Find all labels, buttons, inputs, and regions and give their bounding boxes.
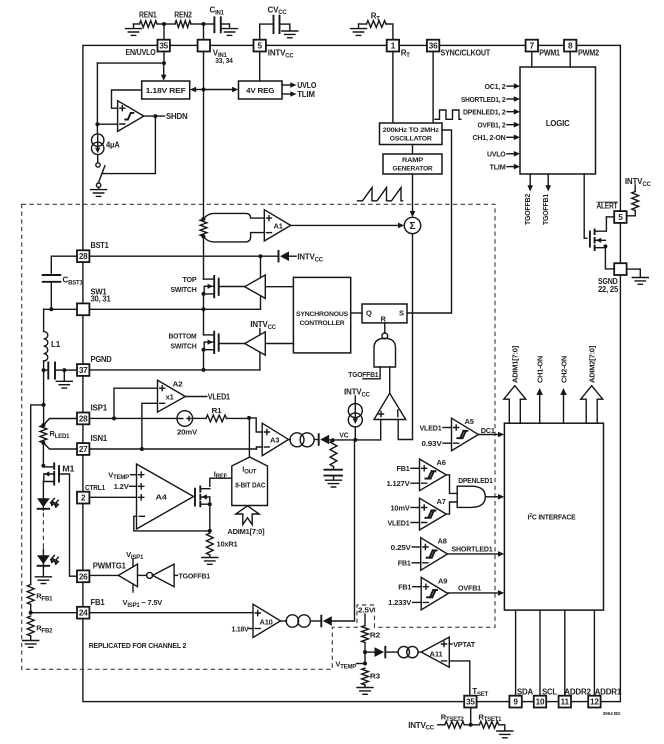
arrow CH2-ON output <box>563 394 565 423</box>
current mirror at A10 output <box>281 620 287 622</box>
svg-text:12: 12 <box>590 698 599 707</box>
compensation network on VC <box>330 440 337 466</box>
wire oscillator to flip-flop S input <box>407 130 452 313</box>
pin 12 ADDR1 <box>588 696 600 708</box>
wire AND output to I2C <box>485 496 498 498</box>
svg-text:x1: x1 <box>166 393 174 402</box>
svg-text:CH1-ON: CH1-ON <box>536 356 545 383</box>
wire ramp generator to summer (arrow down) <box>412 174 414 211</box>
svg-text:1.127V: 1.127V <box>387 479 410 488</box>
pin 26 PWMTG1 <box>77 570 89 582</box>
arrow output TLIM <box>282 93 291 95</box>
op-amp A11 (VPTAT) <box>421 637 449 667</box>
svg-text:SWITCH: SWITCH <box>171 342 197 351</box>
svg-text:24: 24 <box>79 609 88 618</box>
transistor M1 (PWM dimming FET) <box>42 443 44 466</box>
svg-text:VC: VC <box>339 430 349 439</box>
wire bottom driver to PGND net <box>259 352 261 370</box>
ground below LED2 <box>42 568 44 576</box>
resistor RFB2 <box>27 616 34 636</box>
svg-text:1.18V REF: 1.18V REF <box>146 86 187 95</box>
ground for REN1 <box>133 24 135 28</box>
svg-text:20mV: 20mV <box>177 427 197 436</box>
svg-text:4V REG: 4V REG <box>246 86 274 95</box>
label VPTAT <box>449 643 452 645</box>
svg-text:DPENLED1: DPENLED1 <box>458 476 493 485</box>
wire comparator + leg to VC <box>380 420 382 440</box>
svg-text:5: 5 <box>258 42 263 51</box>
comparator A6 <box>420 459 447 491</box>
arrow TGOFFB2 from logic <box>529 174 531 186</box>
wire A6 to AND gate <box>446 475 457 494</box>
wire 2.5V to R2 <box>364 614 366 626</box>
wire 1.18V REF feedback to comparator + <box>112 90 142 108</box>
arrow output UVLO <box>282 84 291 86</box>
svg-text:26: 26 <box>79 572 88 581</box>
wire FB1 to divider <box>31 612 77 614</box>
pin 7 PWM1 <box>526 40 538 52</box>
svg-text:OVFB1: OVFB1 <box>458 583 481 592</box>
dashed wire LED string <box>42 513 44 550</box>
sawtooth waveform symbol <box>358 188 403 201</box>
current mirror at A3 output <box>289 439 291 441</box>
ground at SGND <box>627 269 641 276</box>
wire REN1 junction to EN/UVLO pin <box>163 24 165 40</box>
svg-text:33, 34: 33, 34 <box>215 56 233 65</box>
wire A7 to AND gate <box>446 502 457 514</box>
wire VIN down to top switch drain <box>203 237 205 280</box>
ground below switch <box>98 187 100 189</box>
svg-text:28: 28 <box>79 414 88 423</box>
wire A5 output DC1 <box>478 434 498 436</box>
svg-text:0.25V: 0.25V <box>391 543 411 552</box>
wire VIN to REF and REG with arrows <box>196 89 204 91</box>
svg-text:3964 BD: 3964 BD <box>603 711 622 716</box>
svg-text:Σ: Σ <box>409 220 415 232</box>
pin 10 SCL <box>534 696 546 708</box>
wire CTRL1 to A4 <box>89 496 136 498</box>
svg-text:A4: A4 <box>156 493 168 502</box>
svg-text:VLED1: VLED1 <box>420 423 442 432</box>
svg-text:7: 7 <box>530 42 535 51</box>
svg-text:R3: R3 <box>370 672 380 681</box>
svg-text:A1: A1 <box>274 222 283 231</box>
pin 36 SYNC/CLKOUT <box>427 40 439 52</box>
svg-text:PWM1: PWM1 <box>539 48 560 57</box>
svg-text:A5: A5 <box>465 417 474 426</box>
svg-text:RAMP: RAMP <box>402 157 424 164</box>
wire A10 diode to VC vertical <box>332 440 355 621</box>
ground at output cap <box>63 370 65 380</box>
diode at A3 mirror output to VC <box>314 439 317 441</box>
svg-text:L1: L1 <box>51 340 61 349</box>
svg-text:36: 36 <box>429 42 438 51</box>
wire ISP1 right to 20mV source <box>89 417 177 419</box>
wire SHDN output <box>144 115 165 117</box>
svg-text:OSCILLATOR: OSCILLATOR <box>390 136 432 143</box>
svg-text:35: 35 <box>159 42 168 51</box>
summer sigma <box>404 217 420 233</box>
wire I2C to ADDR2 pin <box>564 610 566 696</box>
svg-text:BST1: BST1 <box>91 241 110 250</box>
svg-text:A9: A9 <box>438 576 447 585</box>
sync square wave symbol <box>435 110 461 119</box>
PWM comparator (current comparator) <box>374 393 406 419</box>
arrow ADIM1 into DAC <box>236 506 259 525</box>
svg-text:10mV: 10mV <box>391 503 410 512</box>
wire A4 output to gate <box>194 496 196 498</box>
svg-text:FB1: FB1 <box>398 583 411 592</box>
pin SGND (22,25) <box>614 263 626 275</box>
svg-text:DPENLED1, 2: DPENLED1, 2 <box>463 108 506 117</box>
led LED1 <box>42 482 44 499</box>
bottom gate driver <box>245 332 266 355</box>
svg-text:SDA: SDA <box>517 687 533 696</box>
wire ISP1 to RLED1 top <box>43 419 77 426</box>
svg-text:2.5V: 2.5V <box>358 606 374 615</box>
comparator A9 <box>421 577 448 610</box>
svg-text:1.18V: 1.18V <box>232 625 249 634</box>
svg-text:27: 27 <box>79 445 88 454</box>
svg-text:ADDR1: ADDR1 <box>595 687 622 696</box>
svg-text:ADIM2[7:0]: ADIM2[7:0] <box>588 345 597 383</box>
svg-text:R: R <box>381 314 387 323</box>
svg-text:SYNCHRONOUS: SYNCHRONOUS <box>296 311 349 318</box>
svg-text:TGOFFB1: TGOFFB1 <box>541 194 550 225</box>
wire VIN1 pin down to sense resistor <box>203 51 205 219</box>
block 8-BIT DAC <box>232 457 268 506</box>
svg-text:UVLO: UVLO <box>297 81 316 90</box>
pin 35 TSET <box>464 696 476 708</box>
wire ISN1 up to A2 - <box>142 403 158 449</box>
op-amp A2 (x1 buffer) <box>158 380 186 412</box>
block 4V REG <box>239 81 283 99</box>
wire flip-flop Q to controller <box>351 312 362 314</box>
wire M1 gate to PWMTG1 <box>59 474 77 576</box>
svg-text:A3: A3 <box>270 436 279 445</box>
block 1.18V REF <box>142 81 190 99</box>
pin 5 ALERT <box>614 211 626 223</box>
arrow TGOFFB1 from logic <box>547 174 549 186</box>
op-amp A10 <box>253 604 281 637</box>
ground below RFB2 <box>30 636 32 640</box>
wire summer down to PWM comparator <box>412 234 414 440</box>
wire DAC IREF to mosfet drain <box>210 478 232 486</box>
wire A8 output SHORTLED1 <box>448 553 498 555</box>
resistor R3 <box>362 668 369 685</box>
svg-text:ADIM1[7:0]: ADIM1[7:0] <box>227 527 265 536</box>
pin 27 ISN1 <box>77 443 89 455</box>
pin SW1 (30,31) <box>77 303 89 315</box>
wire INTVCC pin to 4V REG <box>259 51 261 81</box>
svg-text:ISP1: ISP1 <box>91 403 108 412</box>
svg-text:30, 31: 30, 31 <box>91 295 112 304</box>
svg-text:8-BIT DAC: 8-BIT DAC <box>235 480 266 489</box>
pin 28 ISP1 <box>77 413 89 425</box>
wire PGND net <box>203 350 205 370</box>
resistor RLED1 <box>43 405 45 425</box>
svg-text:SWITCH: SWITCH <box>171 285 197 294</box>
wire I2C to SCL pin <box>539 610 541 696</box>
wire SW1 net <box>203 294 205 309</box>
ground below 10xR1 <box>209 555 211 557</box>
wire racetrack to A1 + input <box>204 213 265 219</box>
svg-text:9: 9 <box>513 698 518 707</box>
wire BST1 net to INTVCC diode <box>89 255 278 257</box>
node EN/UVLO top junction <box>162 22 166 26</box>
diode to A11 mirror <box>365 651 374 653</box>
wire A1 output to summer <box>291 224 399 226</box>
pin 1 RT <box>387 40 399 52</box>
svg-text:TGOFFB1: TGOFFB1 <box>179 572 211 581</box>
resistor R2 <box>362 626 369 643</box>
wire ISN1 to RLED1 bottom <box>43 443 77 449</box>
svg-text:2: 2 <box>81 494 86 503</box>
wire ISP1 up to A2 + <box>114 388 158 418</box>
comparator A8 <box>421 538 448 571</box>
diode to INTVCC (bootstrap) <box>278 251 280 262</box>
svg-text:A7: A7 <box>437 497 446 506</box>
svg-text:PGND: PGND <box>91 355 112 364</box>
svg-text:1.233V: 1.233V <box>388 598 411 607</box>
AND gate DPENLED1 <box>457 486 485 507</box>
dashed box REPLICATED FOR CHANNEL 2 <box>22 204 495 669</box>
ground at RTSET1 <box>497 731 513 738</box>
svg-text:ISN1: ISN1 <box>91 434 108 443</box>
svg-text:22, 25: 22, 25 <box>598 285 619 294</box>
svg-text:OVFB1, 2: OVFB1, 2 <box>478 121 506 130</box>
svg-text:0.93V: 0.93V <box>422 439 442 448</box>
ground for CVCC <box>289 24 291 30</box>
resistor R1 <box>193 417 206 419</box>
svg-text:10xR1: 10xR1 <box>217 540 238 549</box>
wire controller to bottom driver <box>265 343 293 345</box>
svg-text:S: S <box>399 308 404 317</box>
svg-text:SYNC/CLKOUT: SYNC/CLKOUT <box>441 48 491 57</box>
svg-text:8: 8 <box>568 42 573 51</box>
svg-text:200kHz TO 2MHz: 200kHz TO 2MHz <box>383 127 440 134</box>
svg-text:28: 28 <box>79 252 88 261</box>
wire oscillator to ramp generator <box>412 145 414 155</box>
svg-text:A10: A10 <box>260 618 273 627</box>
svg-text:DC1: DC1 <box>481 426 495 435</box>
svg-text:R1: R1 <box>212 406 222 415</box>
wire logic to alert transistor gate <box>584 174 587 238</box>
current mirror at A11 <box>398 646 409 657</box>
svg-text:A11: A11 <box>430 650 443 659</box>
comparator A5 <box>452 418 479 451</box>
current source 4uA <box>96 124 98 134</box>
pin 35 EN/UVLO <box>158 40 170 52</box>
svg-text:M1: M1 <box>62 465 75 474</box>
voltage source 20mV <box>177 411 193 427</box>
svg-text:A6: A6 <box>437 458 446 467</box>
led LED2 <box>42 549 44 555</box>
wire I2C to SDA pin <box>515 610 517 696</box>
inverter bubble <box>147 572 153 578</box>
diode at A10 mirror output <box>310 620 320 622</box>
svg-text:VLED1: VLED1 <box>388 518 410 527</box>
svg-text:REPLICATED FOR CHANNEL 2: REPLICATED FOR CHANNEL 2 <box>89 641 187 650</box>
block LOGIC <box>520 67 596 174</box>
wire RT pin to oscillator <box>392 51 394 123</box>
wire buffer to inverter bubble <box>138 574 147 576</box>
wire A9 output OVFB1 <box>448 592 498 594</box>
svg-text:REN1: REN1 <box>139 11 157 20</box>
svg-text:SHORTLED1: SHORTLED1 <box>452 544 493 553</box>
svg-text:A2: A2 <box>173 379 183 388</box>
comparator A7 <box>420 498 447 530</box>
svg-text:BOTTOM: BOTTOM <box>169 332 197 341</box>
comparator U1 (shutdown) <box>118 101 144 132</box>
driver buffer to PWMTG1 <box>89 574 118 576</box>
svg-text:GENERATOR: GENERATOR <box>393 166 433 173</box>
wire ISN1 right to A3 minus <box>89 448 256 450</box>
svg-text:ALERT: ALERT <box>597 202 618 211</box>
pin 37 PGND <box>77 364 89 376</box>
svg-text:10: 10 <box>536 698 545 707</box>
op-amp A1 <box>264 210 290 241</box>
pin 2 CTRL1 <box>77 492 89 504</box>
pin 11 ADDR2 <box>559 696 571 708</box>
arrow ADIM1[7:0] output <box>504 386 526 424</box>
resistor RFB1 <box>27 585 34 605</box>
svg-text:5: 5 <box>618 213 623 222</box>
wire comparator - leg to summer line <box>398 420 412 440</box>
block RAMP GENERATOR <box>383 154 442 174</box>
resistor 10xR1 <box>206 533 213 555</box>
svg-text:PWMTG1: PWMTG1 <box>93 562 127 571</box>
wire diode junction down to top driver <box>260 256 262 277</box>
pin 9 SDA <box>509 696 521 708</box>
output capacitor at PGND <box>42 368 46 372</box>
svg-text:TLIM: TLIM <box>297 90 315 99</box>
pin VIN1 (33,34) <box>198 40 210 52</box>
svg-text:CH1, 2-ON: CH1, 2-ON <box>473 133 506 142</box>
svg-text:SCL: SCL <box>542 687 557 696</box>
svg-text:FB1: FB1 <box>91 598 106 607</box>
wire alert pin left to transistor drain <box>606 216 614 218</box>
ground below R3 <box>364 685 366 687</box>
svg-text:OC1, 2: OC1, 2 <box>485 82 506 91</box>
inverter from TGOFFB1 <box>153 564 175 587</box>
chip outline (IC boundary) <box>83 45 621 701</box>
svg-text:TOP: TOP <box>183 275 197 284</box>
op-amp A3 <box>262 423 288 456</box>
capacitor CBST1 <box>51 256 77 274</box>
svg-text:A8: A8 <box>438 537 447 546</box>
svg-text:UVLO: UVLO <box>487 150 506 159</box>
transistor top switch <box>204 278 215 280</box>
wire controller to top driver <box>265 286 293 288</box>
wire EN/UVLO to 1.18V REF (arrow down) <box>163 63 165 74</box>
flip-flop Q R S <box>362 304 407 323</box>
pin 8 PWM2 <box>564 40 576 52</box>
svg-text:LOGIC: LOGIC <box>546 119 570 128</box>
wire switch to SHDN node <box>102 116 155 174</box>
wire A4 minus feedback loop <box>134 516 210 531</box>
wire junction down to DAC <box>248 418 250 457</box>
ground for RT <box>358 24 360 28</box>
wire PWM2 pin to logic <box>569 51 571 67</box>
svg-text:11: 11 <box>561 698 570 707</box>
node R1 to A3/DAC junction <box>247 416 251 420</box>
transistor DAC current mosfet <box>194 489 196 506</box>
svg-text:CH2-ON: CH2-ON <box>560 356 569 383</box>
svg-text:35: 35 <box>466 698 475 707</box>
node comparator minus input <box>95 122 99 126</box>
pin 24 FB1 <box>77 607 89 619</box>
svg-text:VLED1: VLED1 <box>208 393 231 402</box>
wire EN/UVLO pin to internal comparator <box>163 51 165 63</box>
op-amp A4 (error amp) <box>137 464 194 529</box>
svg-text:ADIM1[7:0]: ADIM1[7:0] <box>511 345 520 383</box>
wire PWM1 pin to logic <box>531 51 533 67</box>
block 200kHz TO 2MHz OSCILLATOR <box>380 123 443 145</box>
svg-text:CONTROLLER: CONTROLLER <box>300 320 345 327</box>
svg-text:SHORTLED1, 2: SHORTLED1, 2 <box>461 95 506 104</box>
wire racetrack to A1 - input <box>204 233 265 242</box>
wire A2 output VLED1 <box>185 396 207 398</box>
svg-text:37: 37 <box>79 366 88 375</box>
wire I2C to ADDR1 pin <box>593 610 595 696</box>
svg-text:SHDN: SHDN <box>166 112 188 121</box>
block SYNCHRONOUS CONTROLLER <box>293 277 350 353</box>
transistor Q1 (alert pulldown) <box>589 232 591 247</box>
wire A11 minus to TSET <box>449 661 470 696</box>
svg-text:Q: Q <box>366 308 372 317</box>
switch (shutdown) <box>97 155 99 163</box>
node VIN top junction <box>202 22 206 26</box>
wire FB1 to A10 <box>89 612 253 614</box>
wire SW1 pin to inductor <box>44 308 78 310</box>
svg-text:I2C INTERFACE: I2C INTERFACE <box>528 513 576 522</box>
svg-text:TGOFFB1: TGOFFB1 <box>348 370 378 379</box>
top gate driver <box>245 275 266 298</box>
svg-text:4µA: 4µA <box>106 141 120 150</box>
transistor bottom switch <box>203 309 205 335</box>
arrow CH1-ON output <box>539 394 541 423</box>
sense resistor (VIN current sense) <box>202 217 206 221</box>
svg-text:CTRL1: CTRL1 <box>85 483 105 492</box>
svg-text:PWM2: PWM2 <box>578 48 600 57</box>
wire VOUT rail down <box>43 370 45 405</box>
inductor L1 <box>43 309 45 331</box>
svg-text:R2: R2 <box>370 631 380 640</box>
svg-text:1.2V: 1.2V <box>114 482 129 491</box>
svg-text:REN2: REN2 <box>174 11 192 20</box>
svg-text:TLIM: TLIM <box>490 162 506 171</box>
svg-text:EN/UVLO: EN/UVLO <box>126 48 156 57</box>
pin 5 INTVCC <box>254 40 266 52</box>
wire VIN junction to VIN1 pin <box>203 24 205 40</box>
wire PWM comparator to NAND input <box>389 367 391 393</box>
svg-text:FB1: FB1 <box>398 559 411 568</box>
svg-text:VPTAT: VPTAT <box>453 640 476 649</box>
wire SYNC/CLKOUT pin to oscillator <box>432 51 434 123</box>
wire mosfet source to 10xR1 <box>209 504 211 531</box>
svg-text:TGOFFB2: TGOFFB2 <box>523 194 532 225</box>
svg-text:1: 1 <box>391 42 396 51</box>
NAND gate <box>384 323 386 333</box>
pin 28 BST1 <box>77 250 89 262</box>
block I2C INTERFACE <box>504 423 603 610</box>
ground for CIN1 <box>229 24 231 28</box>
arrow ADIM2[7:0] output <box>581 386 603 424</box>
node R2/R3 junction <box>364 643 366 664</box>
wire junction to A3 + <box>249 418 262 432</box>
svg-text:FB1: FB1 <box>397 464 410 473</box>
